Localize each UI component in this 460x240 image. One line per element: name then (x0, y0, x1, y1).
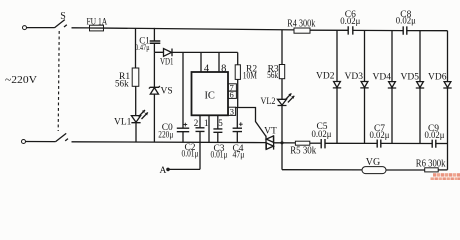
svg-text:VL2: VL2 (261, 97, 276, 107)
IC U1 box (192, 72, 229, 115)
wire bottom line to VG (282, 169, 362, 171)
diode VD5 branch (419, 31, 421, 144)
wire R6 to right edge (438, 169, 447, 171)
svg-text:0.02μ: 0.02μ (370, 130, 390, 140)
svg-text:VT: VT (264, 127, 277, 137)
triac VT (266, 136, 274, 150)
capacitor C4 (236, 108, 238, 128)
svg-text:56k: 56k (115, 80, 129, 90)
svg-text:0.47μ: 0.47μ (135, 42, 150, 52)
wire C7 to C9 (381, 142, 432, 144)
pin 3 box (228, 107, 235, 115)
capacitor C3 on pin5 lead (217, 115, 219, 128)
resistor R1 branch (135, 28, 137, 68)
svg-text:VD2: VD2 (316, 72, 335, 82)
pin 8 stub (218, 52, 220, 72)
fuse FU 1A (90, 25, 104, 31)
pin 1 lead to rail (208, 115, 210, 142)
svg-text:220μ: 220μ (158, 130, 173, 140)
switch contact tick lower (65, 139, 68, 141)
resistor R6 body (425, 168, 439, 172)
svg-text:0.02μ: 0.02μ (340, 16, 360, 26)
svg-text:3: 3 (230, 107, 234, 117)
wire R1 to VL1 (135, 86, 137, 115)
svg-text:IC: IC (204, 91, 215, 102)
wire top rail left to switch (27, 27, 55, 29)
capacitor C5 plates (321, 139, 325, 148)
watermark (431, 173, 460, 180)
svg-text:6: 6 (229, 90, 233, 100)
svg-text:0.02μ: 0.02μ (312, 129, 332, 139)
svg-text:VS: VS (161, 87, 173, 97)
neon lamp VG (362, 167, 386, 174)
svg-text:R6 300k: R6 300k (416, 159, 446, 170)
wire triac junction down (281, 143, 283, 170)
svg-text:VD1: VD1 (160, 58, 174, 68)
wire switch to fuse (72, 27, 90, 29)
switch S blade (upper pole) (55, 20, 65, 28)
right edge lower segment (447, 144, 449, 170)
wire triac to R5 (274, 142, 296, 144)
svg-text:47μ: 47μ (233, 150, 245, 160)
wire R5 to C5 (310, 142, 321, 144)
wire C1 to VD1 node (154, 44, 163, 53)
terminal bottom-left (22, 140, 26, 144)
svg-text:0.01μ: 0.01μ (182, 149, 199, 159)
node A wire (169, 168, 201, 170)
node A dot (166, 168, 170, 172)
node C1 branch from rail (153, 28, 155, 41)
wire pin3 to gate (236, 108, 266, 137)
switch S linkage dashed (58, 31, 59, 131)
wire VS to bottom rail (153, 94, 155, 142)
svg-text:1: 1 (204, 118, 209, 128)
wire VG to R6 (386, 169, 425, 171)
svg-text:VG: VG (366, 157, 380, 168)
wire VD1 to R2 supply line (172, 51, 238, 53)
pin 4 stub (200, 52, 202, 72)
capacitor C2 on pin2 lead (199, 115, 201, 127)
svg-text:~220V: ~220V (5, 74, 37, 86)
svg-text:8: 8 (221, 63, 226, 74)
svg-text:0.01μ: 0.01μ (211, 150, 228, 160)
wire top rail fuse to R4 (104, 28, 295, 30)
capacitor C8 plates (403, 26, 407, 34)
C4 plus sign (239, 122, 243, 126)
terminal top-left (23, 26, 27, 30)
LED VL1 (131, 116, 140, 123)
svg-text:5: 5 (218, 118, 223, 128)
svg-text:4: 4 (204, 63, 210, 74)
svg-text:0.02μ: 0.02μ (425, 130, 445, 140)
svg-text:VD5: VD5 (401, 73, 420, 83)
triac junction dot (280, 141, 283, 144)
svg-text:56k: 56k (267, 71, 278, 81)
diode VD3 branch (364, 30, 366, 143)
svg-text:S: S (60, 11, 66, 22)
diode VD1 (164, 49, 173, 57)
svg-text:VD4: VD4 (373, 73, 392, 83)
wire bottom rail to triac (72, 141, 267, 144)
wire bottom rail to switch (26, 141, 56, 143)
zener VS (153, 52, 155, 87)
svg-text:R5 30k: R5 30k (290, 146, 316, 157)
svg-text:10M: 10M (243, 71, 258, 81)
wire top rail R4 to C6 (310, 29, 348, 31)
wire top rail C8 to right edge (407, 30, 448, 32)
wire C5 to C7 (325, 142, 377, 144)
diode VD2 branch (336, 30, 338, 143)
capacitor C6 plates (348, 26, 353, 34)
pin 6 box (228, 91, 236, 98)
wire C9 to right edge (436, 143, 448, 145)
svg-text:VL1: VL1 (114, 118, 132, 128)
capacitor C0 branch (182, 52, 184, 128)
diode VD6 on right edge (447, 31, 449, 144)
diode VD4 branch (391, 31, 393, 144)
wire VL1 to bottom rail (135, 123, 137, 142)
capacitor C1 plates (150, 41, 161, 43)
svg-text:0.02μ: 0.02μ (396, 15, 416, 25)
resistor R3 (281, 30, 283, 65)
svg-text:R4 300k: R4 300k (287, 19, 316, 30)
svg-text:2: 2 (194, 118, 199, 128)
capacitor C7 plates (377, 140, 381, 148)
resistor R4 body (294, 28, 310, 33)
svg-text:FU 1A: FU 1A (87, 17, 108, 27)
capacitor C9 plates (432, 140, 436, 148)
switch S contact tick (64, 25, 67, 27)
svg-text:A: A (160, 166, 167, 176)
C0 plus sign (183, 123, 187, 127)
resistor R2 (237, 52, 239, 64)
wire top rail C6 to C8 (353, 29, 403, 31)
svg-text:VD3: VD3 (345, 72, 364, 82)
svg-text:VD6: VD6 (428, 73, 447, 83)
LED VL2 (278, 99, 287, 105)
wire VL2 to triac junction (281, 106, 283, 143)
switch blade (lower pole) (56, 133, 67, 141)
pin 7 box (228, 84, 236, 91)
resistor R5 body (295, 141, 309, 145)
